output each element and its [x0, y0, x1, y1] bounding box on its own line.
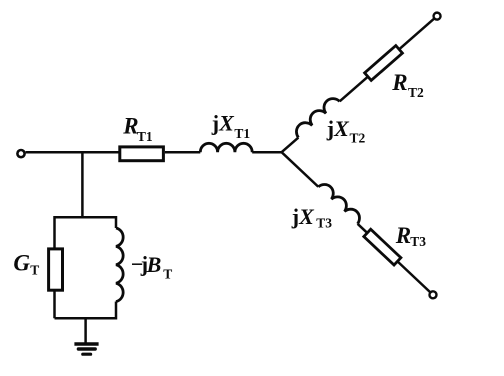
svg-text:T: T — [163, 266, 172, 281]
ground stem wire — [84, 318, 87, 342]
svg-text:T1: T1 — [234, 126, 250, 141]
svg-text:R: R — [395, 223, 411, 248]
ground — [74, 342, 98, 345]
resistor RT1 — [120, 147, 164, 161]
svg-text:G: G — [13, 251, 30, 276]
svg-text:T: T — [30, 263, 39, 278]
wire jXT3 to resistor RT3 — [358, 224, 368, 233]
svg-text:R: R — [391, 70, 407, 95]
svg-text:T3: T3 — [316, 216, 332, 231]
wire jXT1 to node B (star point) — [252, 151, 281, 154]
svg-text:T1: T1 — [137, 129, 153, 144]
svg-text:T2: T2 — [350, 130, 366, 145]
winding 3 branch (rotated +43.3 deg about star point) — [278, 146, 441, 301]
shunt loop bottom wire — [55, 302, 117, 319]
node A (shunt tap junction) — [81, 152, 84, 218]
terminal port 1 (left) — [17, 150, 24, 157]
inductor jXT1 — [200, 143, 252, 152]
resistor RT3 — [364, 229, 401, 265]
wire RT3 to terminal port 3 — [397, 261, 430, 292]
conductance GT (resistor box) — [49, 249, 63, 290]
inductor jXT3 — [318, 181, 363, 224]
winding 2 branch (rotated -41.2 deg about star point) — [276, 7, 443, 156]
susceptance -jBT (inductor, 4 half-turns) — [116, 228, 123, 302]
terminal port 2 (upper right) — [432, 11, 442, 21]
svg-text:T3: T3 — [410, 234, 426, 249]
wire from port 1 to resistor RT1 — [26, 151, 119, 154]
terminal port 3 (lower right) — [428, 290, 438, 300]
resistor RT2 — [365, 46, 403, 81]
inductor jXT2 — [293, 95, 340, 138]
svg-text:jX: jX — [211, 110, 235, 135]
shunt loop top wire — [55, 217, 117, 318]
wire star point to inductor jXT2 — [282, 138, 299, 153]
svg-text:jX: jX — [326, 116, 350, 141]
svg-text:T2: T2 — [408, 85, 424, 100]
wire RT1 to inductor jXT1 — [165, 151, 200, 154]
wire star point to inductor jXT3 — [282, 152, 319, 187]
wire jXT2 to resistor RT2 — [340, 77, 368, 102]
svg-text:jX: jX — [291, 204, 315, 229]
wire RT2 to terminal port 2 — [399, 18, 434, 49]
svg-text:B: B — [146, 252, 162, 277]
